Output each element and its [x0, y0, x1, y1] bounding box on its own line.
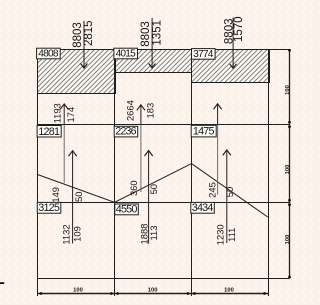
- svg-text:3125: 3125: [38, 202, 60, 214]
- svg-text:100: 100: [285, 235, 291, 245]
- svg-text:149: 149: [50, 187, 61, 203]
- svg-text:50: 50: [148, 184, 159, 194]
- svg-text:183: 183: [144, 103, 155, 119]
- svg-text:2236: 2236: [115, 126, 136, 138]
- svg-text:113: 113: [148, 226, 159, 241]
- svg-text:1475: 1475: [193, 126, 215, 138]
- svg-text:1132: 1132: [60, 224, 71, 244]
- svg-text:4550: 4550: [116, 204, 138, 216]
- svg-text:245: 245: [206, 182, 217, 198]
- svg-text:4808: 4808: [38, 49, 59, 60]
- svg-text:100: 100: [285, 165, 291, 175]
- svg-text:2664: 2664: [125, 100, 136, 121]
- svg-text:50: 50: [73, 192, 84, 202]
- svg-text:1351: 1351: [152, 20, 164, 46]
- svg-text:111: 111: [226, 228, 237, 242]
- svg-text:100: 100: [285, 85, 291, 95]
- svg-text:1281: 1281: [38, 126, 60, 138]
- svg-text:50: 50: [224, 187, 235, 197]
- svg-text:174: 174: [65, 107, 76, 123]
- svg-text:100: 100: [148, 287, 158, 293]
- svg-text:1230: 1230: [214, 224, 225, 245]
- svg-text:3774: 3774: [193, 49, 214, 60]
- svg-text:1570: 1570: [233, 16, 245, 42]
- svg-text:2815: 2815: [83, 20, 95, 46]
- svg-text:100: 100: [224, 287, 234, 293]
- svg-text:109: 109: [71, 226, 82, 242]
- svg-text:4015: 4015: [116, 49, 137, 60]
- svg-text:3434: 3434: [192, 202, 214, 214]
- svg-text:360: 360: [128, 180, 139, 196]
- svg-text:1193: 1193: [51, 103, 62, 123]
- svg-text:100: 100: [73, 287, 83, 293]
- svg-text:8803: 8803: [140, 21, 152, 47]
